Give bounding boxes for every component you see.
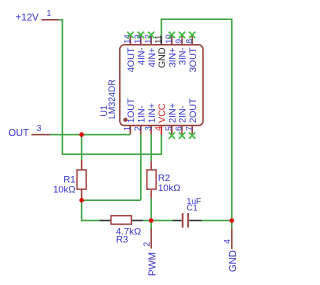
port PWM pin 2: [143, 229, 159, 277]
node junction OUT/R1: [79, 132, 84, 137]
U1 pin 11 GND: [154, 35, 167, 69]
U1 pin 12 4IN+: [144, 32, 157, 68]
svg-text:1: 1: [47, 9, 52, 18]
svg-text:11: 11: [154, 35, 163, 44]
node junction R1/pin2/R3: [79, 198, 84, 203]
wire R2 bottom to PWM node: [150, 198, 152, 220]
svg-text:C1: C1: [187, 202, 198, 212]
U1 pin 5 2IN+: [164, 103, 177, 139]
wire C1 right to GND node: [202, 220, 232, 222]
svg-text:GND: GND: [157, 47, 167, 68]
U1 pin 9 3IN-: [175, 32, 188, 65]
svg-text:PWM: PWM: [147, 252, 158, 276]
node junction PWM: [149, 218, 154, 223]
resistor R2 10k: [147, 161, 181, 199]
wire GND net: pin 11 up and over to GND node: [161, 19, 231, 220]
svg-text:2OUT: 2OUT: [188, 98, 198, 123]
U1 pin 7 2OUT: [185, 98, 198, 139]
port GND pin 4: [223, 229, 239, 273]
svg-text:LM324DR: LM324DR: [107, 79, 117, 119]
svg-text:3: 3: [144, 126, 153, 131]
resistor R3 4.7k: [100, 216, 144, 246]
resistor R1 10k: [53, 160, 86, 200]
U1 pin 14 4OUT: [123, 32, 136, 73]
svg-text:2IN+: 2IN+: [168, 103, 178, 123]
svg-text:4OUT: 4OUT: [126, 47, 136, 72]
wire pin 3 down to R2 top: [150, 134, 152, 161]
svg-text:6: 6: [175, 126, 184, 131]
U1 pin 10 3IN+: [164, 32, 177, 68]
svg-text:3IN+: 3IN+: [168, 48, 178, 68]
wire feedback node horizontal: [82, 199, 141, 201]
svg-text:7: 7: [185, 126, 194, 131]
port +12V pin 1: [16, 9, 59, 23]
U1 pin 13 4IN-: [133, 32, 146, 65]
svg-text:3OUT: 3OUT: [188, 47, 198, 72]
svg-text:4IN+: 4IN+: [147, 48, 157, 68]
wire PWM node to C1 left: [151, 220, 172, 222]
U1 pin 1 1OUT: [123, 98, 136, 134]
svg-text:2IN-: 2IN-: [178, 105, 188, 123]
svg-text:1OUT: 1OUT: [126, 98, 136, 123]
svg-text:4IN-: 4IN-: [137, 48, 147, 66]
svg-text:10kΩ: 10kΩ: [158, 183, 180, 194]
wire GND node to GND port: [231, 221, 233, 230]
svg-text:5: 5: [164, 126, 173, 131]
wire +12V rail: port to VCC pin 4: [59, 20, 162, 154]
svg-text:4: 4: [154, 126, 163, 131]
wire PWM node to PWM port: [150, 221, 152, 230]
svg-text:1IN+: 1IN+: [147, 103, 157, 123]
op-amp U1 LM324DR body: [120, 45, 203, 126]
svg-text:1IN-: 1IN-: [137, 105, 147, 123]
wire R3 right to PWM node: [143, 220, 151, 222]
svg-text:+12V: +12V: [16, 12, 40, 23]
svg-text:3: 3: [37, 124, 42, 133]
wire pin 2 down to feedback node: [140, 134, 142, 200]
wire OUT net: OUT port to pin 1: [50, 134, 130, 136]
port OUT pin 3: [8, 124, 50, 139]
svg-text:2: 2: [133, 126, 142, 131]
capacitor C1 1uF: [173, 196, 202, 227]
wire OUT junction down to R1 top: [81, 135, 83, 161]
wire feedback node down to R3 left: [82, 200, 100, 220]
node junction GND: [230, 218, 235, 223]
svg-text:1: 1: [123, 126, 132, 131]
svg-text:R3: R3: [116, 234, 128, 245]
svg-text:GND: GND: [228, 250, 239, 272]
svg-text:OUT: OUT: [8, 128, 29, 139]
U1 pin 3 1IN+: [144, 103, 157, 134]
svg-text:9: 9: [175, 39, 184, 44]
U1 pin 2 1IN-: [133, 105, 146, 134]
U1 pin 4 VCC: [154, 103, 167, 134]
svg-text:10kΩ: 10kΩ: [53, 184, 75, 195]
svg-text:3IN-: 3IN-: [178, 48, 188, 66]
U1 pin 8 3OUT: [185, 32, 198, 73]
U1 pin 6 2IN-: [175, 105, 188, 138]
svg-text:4: 4: [223, 239, 232, 244]
svg-text:2: 2: [143, 242, 152, 247]
svg-text:VCC: VCC: [157, 103, 167, 123]
svg-text:8: 8: [185, 39, 194, 44]
